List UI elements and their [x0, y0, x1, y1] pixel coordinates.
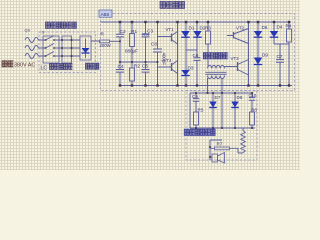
svg-text:D1: D1: [189, 26, 195, 31]
svg-text:D9: D9: [262, 53, 268, 58]
svg-text:D6: D6: [262, 25, 268, 30]
svg-text:C6: C6: [193, 53, 199, 58]
svg-text:C8: C8: [151, 42, 157, 47]
svg-text:LC: LC: [41, 66, 48, 72]
svg-text:C9: C9: [192, 94, 198, 99]
svg-text:C5: C5: [142, 64, 148, 70]
svg-text:R4: R4: [286, 24, 292, 29]
svg-text:R1: R1: [131, 29, 137, 35]
svg-text:VT2: VT2: [236, 26, 245, 31]
svg-text:C7: C7: [277, 54, 283, 59]
svg-text:R2: R2: [134, 63, 140, 69]
svg-text:680μF: 680μF: [125, 49, 138, 54]
svg-text:AB8: AB8: [101, 12, 110, 17]
svg-text:D7: D7: [215, 95, 221, 100]
svg-text:VT3: VT3: [231, 56, 240, 61]
svg-text:R5: R5: [198, 108, 204, 113]
svg-text:R6: R6: [251, 108, 257, 113]
svg-text:C4: C4: [118, 64, 124, 70]
svg-text:R3: R3: [205, 26, 211, 31]
svg-text:380V AC: 380V AC: [14, 62, 35, 68]
svg-text:QS: QS: [25, 29, 31, 33]
svg-text:C2: C2: [120, 29, 126, 35]
svg-text:VT4: VT4: [164, 58, 173, 63]
svg-text:R7: R7: [217, 142, 223, 147]
svg-text:C3: C3: [147, 29, 153, 35]
svg-text:VT1: VT1: [166, 27, 175, 32]
svg-text:D4: D4: [277, 25, 283, 30]
svg-text:D8: D8: [237, 95, 243, 100]
svg-text:D3: D3: [188, 65, 194, 70]
svg-text:200W: 200W: [100, 43, 112, 48]
